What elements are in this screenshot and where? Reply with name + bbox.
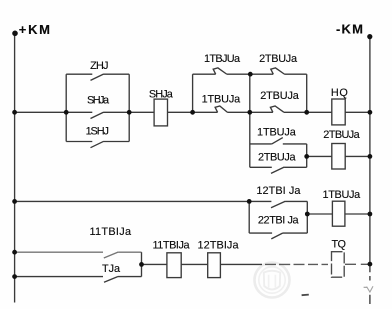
svg-text:TQ: TQ xyxy=(332,239,347,251)
svg-text:2TBUJa: 2TBUJa xyxy=(259,53,298,65)
svg-text:SHJa: SHJa xyxy=(87,94,110,106)
coil 1TBUJa xyxy=(332,201,345,226)
node group A left xyxy=(64,110,69,115)
node sub group exit xyxy=(304,154,309,159)
wire: coil HQ to -KM bus xyxy=(345,111,370,113)
wire row2: left bus to group D xyxy=(16,200,249,202)
svg-text:11TBIJa: 11TBIJa xyxy=(90,226,132,238)
wire: group C to coil HQ xyxy=(307,111,332,113)
dashed wire to coil TQ xyxy=(265,263,328,265)
node 2TBUJa coil to bus xyxy=(368,154,373,159)
group C right bracket wire xyxy=(306,74,308,112)
wire: box 11TBIJa to box 12TBIJa xyxy=(181,263,208,265)
coil TQ (faded dashed outline) xyxy=(332,252,345,278)
contact 1TBUJa (sub branch top) xyxy=(250,138,307,144)
contact 2TBUJa (main branch group C) xyxy=(250,106,307,112)
wire: sub group to coil 2TBUJa xyxy=(307,155,332,157)
svg-text:HQ: HQ xyxy=(331,87,348,99)
group B left bracket wire xyxy=(192,74,194,112)
wire: coil 1TBUJa to -KM bus xyxy=(345,213,370,215)
svg-text:ZHJ: ZHJ xyxy=(90,60,108,72)
svg-text:TJa: TJa xyxy=(102,263,121,275)
coil SHJa xyxy=(154,99,167,126)
node group D left xyxy=(247,199,252,204)
coil 2TBUJa xyxy=(332,144,345,170)
row3 right bracket wire xyxy=(141,252,143,276)
box 12TBIJa xyxy=(208,253,221,278)
contact 1TBJUa (top branch group B) xyxy=(193,68,250,74)
parallel group A left bracket wire xyxy=(65,74,67,141)
svg-text:2TBUJa: 2TBUJa xyxy=(323,129,360,141)
node row3 exit xyxy=(139,262,144,267)
node -KM top dot xyxy=(367,34,372,39)
contact 2TBUJa (sub branch bottom) xyxy=(250,167,307,173)
group D right bracket wire xyxy=(306,201,308,233)
-KM bus (right vertical) xyxy=(369,37,371,305)
contact 22TBIJa (bottom branch group D) xyxy=(249,233,307,239)
contact SHJa (main branch of group A) xyxy=(66,112,129,118)
+KM bus (left vertical) xyxy=(14,33,16,302)
node group A right xyxy=(127,110,132,115)
contact 1TBUJa (main branch group B) xyxy=(193,106,250,112)
contact 12TBIJa (top branch group D) xyxy=(249,201,307,208)
dashed wire: coil TQ to -KM bus xyxy=(345,263,368,265)
contact TJa (row3 bottom branch) xyxy=(16,277,142,283)
node group B left xyxy=(190,110,195,115)
svg-text:12TBIJa: 12TBIJa xyxy=(198,240,240,252)
svg-text:2TBUJa: 2TBUJa xyxy=(258,151,296,163)
svg-text:-KM: -KM xyxy=(336,22,363,37)
node 1TBUJa coil to bus xyxy=(368,212,373,217)
svg-text:1TBJUa: 1TBJUa xyxy=(204,53,241,65)
svg-text:1SHJ: 1SHJ xyxy=(86,125,109,137)
svg-text:1TBUJa: 1TBUJa xyxy=(257,126,297,138)
coil HQ xyxy=(332,99,345,125)
group D left bracket wire xyxy=(248,201,250,233)
node +KM top dot xyxy=(12,31,18,37)
node group D exit xyxy=(305,212,310,217)
node TQ to bus xyxy=(368,262,373,267)
svg-text:1TBUJa: 1TBUJa xyxy=(202,94,242,106)
node HQ to bus xyxy=(368,110,373,115)
node B/C shared main xyxy=(247,110,252,115)
wire: box 12TBIJa rightward (fades into dashes) xyxy=(220,263,262,265)
contact ZHJ (top branch of group A) xyxy=(66,74,129,80)
svg-text:11TBIJa: 11TBIJa xyxy=(153,240,191,252)
svg-text:12TBI Ja: 12TBI Ja xyxy=(256,185,301,197)
wire: group A to coil SHJa xyxy=(129,111,154,113)
wire: row3 bracket to box 11TBIJa xyxy=(142,263,167,265)
wire: coil 2TBUJa to -KM bus xyxy=(345,155,370,157)
wire: group D to coil 1TBUJa xyxy=(307,213,332,215)
node row3b-left xyxy=(12,274,17,279)
watermark small dark dash xyxy=(302,294,309,297)
-KM bus faint arrow mark xyxy=(367,286,373,292)
box 11TBIJa xyxy=(167,253,181,278)
wire row1: left bus to group A xyxy=(16,111,66,113)
svg-text:SHJa: SHJa xyxy=(149,88,174,100)
watermark circle logo xyxy=(255,263,290,298)
parallel group A right bracket wire xyxy=(128,74,130,141)
contact 1SHJ (bottom branch of group A) xyxy=(66,141,129,147)
shared bracket wire between groups B and C xyxy=(249,74,251,167)
node row2-left xyxy=(12,199,17,204)
sub group right bracket wire xyxy=(306,144,308,167)
contact 2TBUJa (top branch group C) xyxy=(250,68,307,74)
wire: coil SHJa to group B xyxy=(168,111,193,113)
node B/C shared top xyxy=(248,72,253,77)
svg-text:+KM: +KM xyxy=(19,22,50,37)
svg-text:22TBI Ja: 22TBI Ja xyxy=(258,215,300,227)
node group C right xyxy=(304,110,309,115)
svg-text:1TBUJa: 1TBUJa xyxy=(323,189,362,201)
node row1-left xyxy=(12,110,17,115)
node row3a-left xyxy=(12,250,17,255)
svg-text:2TBUJa: 2TBUJa xyxy=(260,90,300,102)
contact 11TBIJa (row3 top branch) xyxy=(16,252,142,258)
